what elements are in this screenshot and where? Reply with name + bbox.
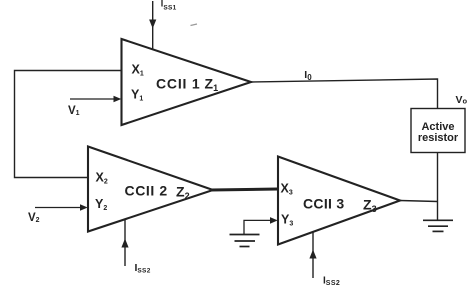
svg-text:Y1: Y1	[131, 87, 143, 102]
svg-text:Y2: Y2	[95, 197, 107, 212]
current source ISS1 wire	[152, 1, 154, 49]
svg-text:I0: I0	[304, 69, 312, 82]
svg-text:ISS1: ISS1	[161, 0, 177, 11]
wire feedback X1 to X2	[15, 71, 122, 178]
svg-text:V2: V2	[28, 212, 40, 224]
svg-text:ISS2: ISS2	[135, 262, 151, 275]
svg-text:X3: X3	[281, 182, 293, 197]
svg-text:CCII 2: CCII 2	[125, 183, 168, 199]
svg-text:Z1: Z1	[205, 76, 219, 94]
svg-text:Y3: Y3	[281, 213, 293, 228]
current source ISS2 wire (left)	[124, 220, 126, 267]
ground middle	[230, 234, 260, 236]
svg-text:resistor: resistor	[418, 132, 459, 144]
svg-text:X2: X2	[96, 171, 108, 186]
active resistor box	[411, 109, 465, 153]
ground right	[423, 219, 453, 221]
wire Z3 to ground node	[400, 201, 438, 202]
op-amp CCII1 (current conveyor block 1)	[122, 39, 252, 125]
scan artifact dash	[191, 24, 198, 26]
wire Z2 to X3 (thick)	[211, 189, 278, 190]
op-amp CCII3 (current conveyor block 3)	[278, 157, 400, 245]
svg-text:CCII 3: CCII 3	[303, 196, 344, 212]
op-amp CCII2 (current conveyor block 2)	[88, 147, 213, 232]
wire V2 input to Y2	[35, 207, 83, 209]
wire Io from Z1 to active resistor	[251, 79, 438, 109]
current source ISS2 wire (right)	[312, 232, 314, 278]
svg-text:Z2: Z2	[176, 184, 190, 202]
svg-text:V1: V1	[68, 105, 80, 117]
wire active resistor to ground	[437, 153, 439, 221]
wire V1 input to Y1	[70, 98, 116, 100]
svg-text:CCII 1: CCII 1	[156, 76, 200, 92]
wire Y3 to ground	[244, 220, 273, 234]
svg-text:Z3: Z3	[363, 197, 377, 215]
svg-text:ISS2: ISS2	[323, 276, 340, 285]
svg-text:Vo: Vo	[456, 94, 468, 106]
svg-text:X1: X1	[132, 63, 144, 78]
